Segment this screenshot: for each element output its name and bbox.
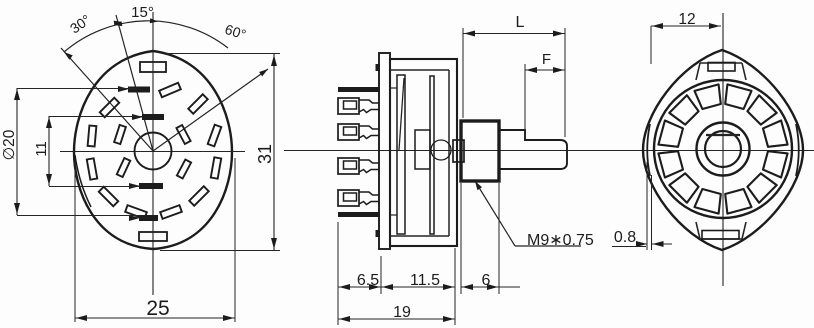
svg-text:12: 12: [678, 11, 695, 28]
svg-text:F: F: [542, 51, 551, 68]
svg-text:25: 25: [146, 297, 169, 320]
svg-text:L: L: [516, 14, 525, 31]
svg-text:∅20: ∅20: [1, 129, 18, 160]
svg-text:6: 6: [482, 272, 491, 289]
svg-text:19: 19: [393, 304, 411, 321]
svg-text:31: 31: [255, 144, 275, 164]
svg-text:6.5: 6.5: [357, 272, 379, 289]
svg-text:0.8: 0.8: [614, 229, 636, 246]
svg-text:30°: 30°: [67, 11, 94, 36]
svg-text:15°: 15°: [131, 4, 154, 21]
svg-text:M9∗0.75: M9∗0.75: [527, 232, 594, 249]
svg-text:11.5: 11.5: [410, 272, 440, 289]
svg-text:60°: 60°: [223, 21, 248, 43]
svg-text:11: 11: [33, 141, 50, 157]
